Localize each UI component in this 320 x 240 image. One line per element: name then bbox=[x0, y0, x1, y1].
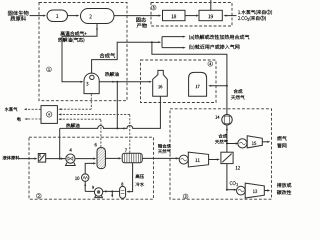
wire hot syngas and oil vapor unit2 to vessel3 bbox=[62, 24, 97, 82]
section label 1 bbox=[47, 67, 52, 72]
label synthetic natural gas to compressor bbox=[219, 134, 227, 138]
label solid biomass feed bbox=[8, 11, 28, 16]
unit 19 (syngas conditioning) bbox=[199, 10, 222, 20]
section label 2 bbox=[36, 193, 41, 198]
wire output above unit 19 bbox=[210, 0, 212, 10]
wire SNG riser top run bbox=[152, 42, 227, 114]
unit 7 (heat exchanger) bbox=[122, 153, 142, 163]
label CO2 use bbox=[277, 183, 291, 188]
label HP cold water bbox=[136, 174, 144, 178]
wire water line to pump9 bbox=[85, 190, 94, 192]
vessel 8 (water drum) bbox=[120, 186, 126, 198]
unit 13 (CO2 compressor) bbox=[237, 186, 246, 195]
wire steam output bbox=[25, 108, 41, 110]
label pyrolysis oil header bbox=[66, 123, 79, 127]
wire splitter branch b bbox=[162, 47, 184, 49]
wire compressor15 to gas grid bbox=[262, 141, 268, 143]
wire compressor13 CO2 out bbox=[264, 190, 268, 192]
unit 12 (CO2 separator) bbox=[221, 152, 233, 163]
label solid product bbox=[136, 17, 146, 22]
unit 2 (pyrolyzer) bbox=[81, 9, 115, 24]
unit 9 (water pump) bbox=[94, 188, 102, 196]
node riser compressor15 branch bbox=[226, 143, 228, 145]
section box 1 (pyrolysis) dashed border bbox=[39, 3, 127, 101]
section box 2 (liquid processing) dashed border bbox=[29, 137, 154, 199]
wire oil drop leg bbox=[116, 82, 118, 129]
label pyrolysis oil at vessel 3 bbox=[105, 72, 119, 76]
wire heat from vessel 3 bbox=[90, 94, 92, 109]
wire syngas staircase from vessel3 bbox=[92, 42, 152, 73]
wire riser unit14 to unit12 bbox=[226, 125, 228, 152]
wire column6 to exchanger7 bbox=[106, 157, 120, 159]
label CO2 bbox=[230, 181, 236, 185]
section label 5 bbox=[151, 5, 156, 10]
wire CO2 leg unit12 to compressor13 bbox=[226, 164, 228, 190]
wire solid product unit2 to unit18 bbox=[114, 15, 160, 17]
section box 4 (storage) dashed border bbox=[141, 60, 217, 103]
unit 4 (feed pump) bbox=[66, 154, 75, 163]
vessel 16 (pyrolysis oil tank) bbox=[153, 70, 168, 96]
section label 3 bbox=[183, 194, 188, 199]
wire electricity output bbox=[26, 118, 41, 120]
unit 15 (product gas compressor) bbox=[238, 139, 247, 148]
wire oil down to feed line bbox=[59, 128, 61, 158]
wire drum8 to exchanger7 riser bbox=[127, 163, 133, 192]
label syngas bbox=[100, 53, 115, 58]
wire unit5 to pump4 bbox=[46, 158, 66, 160]
label gas grid bbox=[277, 136, 286, 140]
wire feed to unit 1 bbox=[30, 15, 45, 17]
wire pyrolysis oil vessel3 to tank16 bbox=[99, 81, 150, 83]
wire branch to compressor 15 bbox=[227, 143, 237, 145]
wire oil header with hops bbox=[60, 96, 161, 128]
label branch b bbox=[189, 45, 239, 50]
wire steam and CO2 into unit 19 bbox=[225, 15, 237, 17]
wire pump4 to column6 bbox=[75, 158, 95, 160]
wire unit1 to unit2 bbox=[68, 15, 78, 17]
wire heat from column 6 bbox=[100, 119, 102, 147]
label liquid feed bbox=[3, 156, 20, 160]
wire recycle into column6 bbox=[85, 163, 94, 173]
label electricity bbox=[17, 117, 21, 121]
unit 5 (feed filter) bbox=[38, 154, 45, 163]
wire blowdown drain bbox=[111, 191, 113, 196]
wire unit18 to unit19 bbox=[185, 15, 197, 17]
unit 10 (chiller) bbox=[82, 174, 89, 181]
label branch a bbox=[189, 35, 249, 40]
section box 3 (methanation / gas upgrade) dashed border bbox=[170, 109, 272, 199]
unit 6e (heat recovery generator) bbox=[41, 106, 57, 124]
label synthetic natural gas riser bbox=[234, 89, 243, 93]
section box 5 (char gasification) dashed border bbox=[151, 3, 232, 27]
node oil junction bbox=[116, 81, 118, 83]
wire exchanger7 to compressor11 bbox=[142, 157, 179, 159]
wire compressor11 to unit12 bbox=[209, 159, 219, 161]
label crude SNG bbox=[158, 144, 171, 148]
wire splitter bracket bbox=[161, 37, 163, 48]
wire pump9 to drum8 bbox=[103, 190, 120, 192]
wire SNG to tank 17 bbox=[210, 85, 227, 87]
label steam from section 2 bbox=[238, 10, 272, 15]
wire splitter branch a bbox=[162, 36, 184, 38]
label steam out bbox=[5, 107, 17, 111]
unit 18 (char gasifier) bbox=[163, 10, 186, 20]
label hot syngas plus pyrolysis oil vapor bbox=[61, 31, 87, 35]
node riser to tank17 junction bbox=[226, 85, 228, 87]
wire heat from exchanger 7 bbox=[129, 114, 131, 152]
unit 11 (syngas compressor) bbox=[179, 155, 188, 164]
unit 14 (gas blower) bbox=[222, 115, 232, 125]
section label 4 bbox=[208, 61, 213, 66]
wire chiller bottom leg bbox=[84, 181, 86, 191]
wire liquid feed to unit5 bbox=[19, 158, 36, 160]
label CO2 from section 3 bbox=[238, 16, 247, 20]
unit 1 (dryer) bbox=[47, 10, 68, 22]
node oil header junction bbox=[116, 127, 118, 129]
wire syngas to splitter bbox=[152, 41, 160, 43]
vessel 17 (SNG holder) bbox=[189, 72, 207, 96]
vessel 3 (quench separator) bbox=[84, 73, 99, 93]
node syngas junction bbox=[151, 41, 153, 43]
